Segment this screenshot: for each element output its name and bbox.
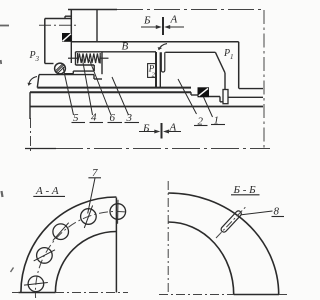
svg-text:3: 3	[126, 112, 133, 124]
svg-text:3: 3	[35, 55, 40, 63]
svg-text:7: 7	[92, 167, 98, 179]
svg-text:Б: Б	[143, 15, 151, 27]
svg-text:А: А	[170, 14, 178, 26]
svg-text:6: 6	[110, 112, 116, 124]
svg-text:Б: Б	[142, 123, 150, 135]
svg-text:4: 4	[91, 112, 97, 124]
svg-text:Б - Б: Б - Б	[233, 184, 257, 196]
svg-text:В: В	[122, 41, 129, 53]
svg-text:А - А: А - А	[35, 185, 59, 197]
svg-text:1: 1	[214, 115, 220, 127]
svg-text:А: А	[169, 122, 177, 134]
svg-text:8: 8	[274, 206, 280, 218]
svg-text:5: 5	[73, 112, 79, 124]
svg-text:1: 1	[230, 53, 234, 61]
svg-text:2: 2	[198, 116, 204, 128]
